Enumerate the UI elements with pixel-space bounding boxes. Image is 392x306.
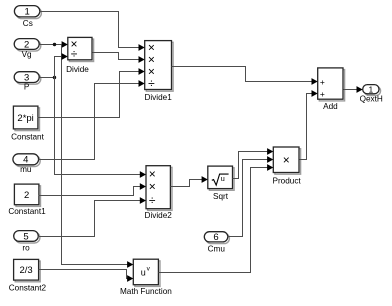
svg-text:Divide1: Divide1 <box>144 93 172 102</box>
svg-text:5: 5 <box>23 231 28 242</box>
block Divide1 (x,x,x,/) <box>146 42 173 91</box>
svg-text:Constant: Constant <box>11 132 44 141</box>
svg-text:u: u <box>141 267 146 277</box>
svg-text:÷: ÷ <box>71 47 78 61</box>
svg-text:+: + <box>320 77 325 87</box>
svg-text:2: 2 <box>24 39 29 50</box>
wire Divide1 output to Add input1 <box>172 67 313 82</box>
output port 1 (QextH) <box>364 86 380 95</box>
wire Constant2 to Math Function input2 <box>39 270 128 279</box>
svg-text:Constant2: Constant2 <box>9 284 47 293</box>
input port 4 (mu) <box>15 156 41 167</box>
wire Sqrt output to Product input1 <box>233 152 269 179</box>
wire mu to Divide1 divide-input <box>39 84 140 160</box>
svg-text:÷: ÷ <box>149 193 156 207</box>
wire ro to Divide2 divide-input <box>38 201 141 237</box>
svg-text:2*pi: 2*pi <box>17 113 33 124</box>
svg-text:Cmu: Cmu <box>208 245 226 254</box>
block Divide2 (x,x,/) <box>148 167 172 210</box>
constant block Constant (2*pi) <box>15 108 40 131</box>
input port 1 (Cs) <box>16 7 41 18</box>
wire P to junction <box>40 77 55 79</box>
block Product (x) <box>275 149 301 175</box>
svg-text:Vg: Vg <box>22 50 32 59</box>
svg-text:2: 2 <box>24 190 29 201</box>
svg-text:QextH: QextH <box>360 95 383 104</box>
wire P down to Divide2 input1 <box>55 78 141 175</box>
wire Constant 2*pi to Divide1 input3 <box>38 72 140 118</box>
svg-text:1: 1 <box>24 7 29 18</box>
input port 2 (Vg) <box>16 40 41 51</box>
constant block Constant2 (2/3) <box>15 261 40 282</box>
wire Add output to QextH port <box>344 89 358 91</box>
svg-text:1: 1 <box>368 84 373 94</box>
svg-text:Cs: Cs <box>23 19 33 28</box>
block Sqrt (sqrt u) <box>209 168 234 191</box>
wire Divide output to Divide1 input2 <box>93 53 140 60</box>
constant block Constant1 (2) <box>16 186 41 207</box>
block Divide (x, /) <box>69 39 93 61</box>
svg-text:Product: Product <box>272 176 301 185</box>
input port 6 (Cmu) <box>206 233 230 243</box>
svg-text:Divide2: Divide2 <box>145 211 173 220</box>
block Add (+,+) <box>319 70 344 101</box>
wire P up to Divide divide-input <box>55 57 63 78</box>
svg-text:×: × <box>283 153 290 167</box>
wire Product output to Add input2 <box>300 94 313 160</box>
wire Constant1 to Divide2 input2 <box>39 187 141 196</box>
junction dot on Vg wire <box>53 43 56 46</box>
block Math Function (u^v) <box>135 261 160 287</box>
svg-text:P: P <box>24 83 30 92</box>
svg-text:ro: ro <box>22 243 30 252</box>
svg-text:mu: mu <box>20 165 32 174</box>
input port 3 (P) <box>16 73 41 84</box>
svg-text:6: 6 <box>213 232 218 243</box>
junction dot on P wire <box>53 76 56 79</box>
wire Vg to Divide input1 <box>40 44 63 46</box>
wire Math Function output to Product input3 <box>159 168 269 273</box>
wire Cmu to Product input2 <box>228 160 269 237</box>
svg-text:Math Function: Math Function <box>120 287 172 296</box>
svg-text:2/3: 2/3 <box>19 265 32 276</box>
svg-text:u: u <box>221 174 225 183</box>
wire Divide2 output to Sqrt input <box>171 180 203 187</box>
svg-text:Sqrt: Sqrt <box>213 192 229 201</box>
svg-text:Constant1: Constant1 <box>8 207 46 216</box>
input port 5 (ro) <box>15 232 40 243</box>
svg-text:×: × <box>149 179 156 193</box>
svg-text:Divide: Divide <box>66 65 89 74</box>
svg-text:÷: ÷ <box>148 77 155 91</box>
svg-text:Add: Add <box>323 102 338 111</box>
svg-text:+: + <box>320 89 325 99</box>
wire Vg branch down to Math Function input1 <box>62 45 128 265</box>
wire Cs to Divide1 input1 <box>40 12 140 48</box>
